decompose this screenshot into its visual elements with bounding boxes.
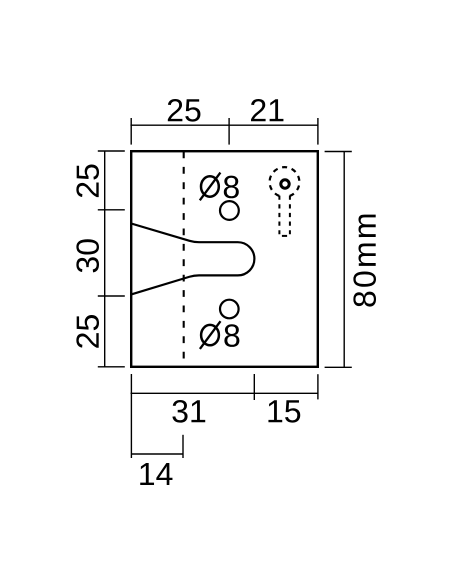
keyhole dashed slot bottom cap [282,235,287,237]
label 15 [268,400,300,422]
label 25 top [168,99,201,122]
label 30 left [76,239,99,272]
hole label top diameter symbol [200,173,221,201]
right dimension tick bottom [325,366,352,368]
plate outline [131,151,318,367]
label 25 left top [76,164,99,197]
right dimension tick top [325,151,352,153]
keyhole pilot circle [281,180,289,188]
left dimension tick 1 [98,150,125,152]
left dimension tick 4 [98,366,125,368]
left dimension tick 2 [98,209,125,211]
top dimension tick right [317,118,319,145]
label 14 [140,463,172,485]
label 25 left bottom [76,315,99,348]
top dimension tick left [130,118,132,145]
right dimension line [343,152,345,368]
top dimension line [130,124,318,126]
top dimension tick middle [228,118,230,145]
bottom dimension tick middle [253,374,255,400]
left dimension tick 3 [98,295,125,297]
lower dimension line 14 [131,453,183,455]
lower dimension tick right [182,435,184,458]
center dashed line [183,152,185,367]
hole label bottom diameter symbol [200,321,221,349]
notch slot [131,224,254,295]
label 80mm [353,215,376,307]
label 21 top [251,99,283,121]
label 31 [172,400,205,423]
hole label top digit 8 [224,176,239,199]
bottom dimension tick right [317,374,319,399]
hole label bottom digit 8 [224,324,239,347]
keyhole dashed slot left side [278,196,280,235]
left dimension line [104,151,106,367]
keyhole dashed slot right side [289,196,291,235]
bottom dimension line [131,392,319,394]
hole top [220,201,239,220]
bottom dimension extension left [130,374,132,458]
keyhole dashed circle [270,167,300,196]
hole bottom [220,300,239,319]
